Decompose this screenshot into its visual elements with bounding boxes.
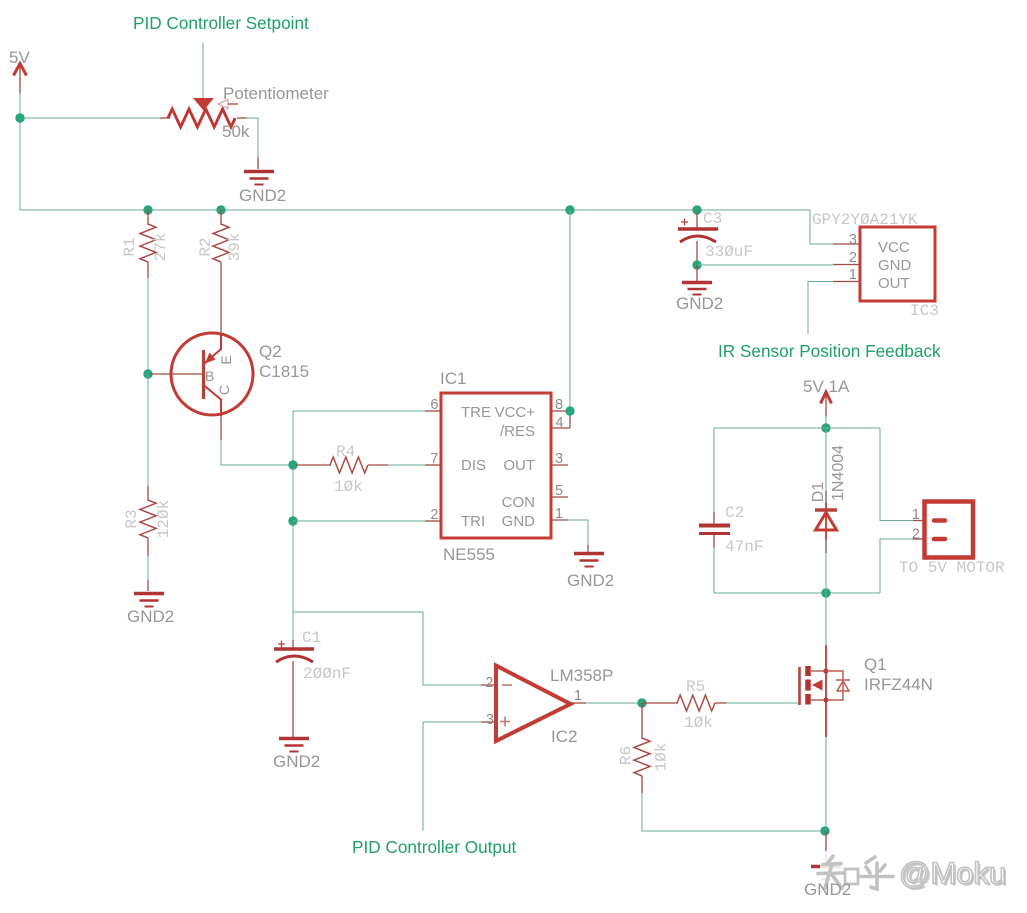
- ground GND2 (C3): [682, 283, 712, 295]
- capacitor C3: [678, 212, 718, 265]
- svg-text:GND: GND: [502, 513, 536, 530]
- wire setpoint to potentiometer wiper: [202, 43, 204, 100]
- svg-text:R6: R6: [618, 746, 636, 765]
- svg-text:3: 3: [849, 232, 857, 248]
- resistor R3: [140, 486, 156, 556]
- svg-text:2: 2: [849, 250, 857, 266]
- wire motor loop left: [713, 428, 715, 512]
- svg-text:CON: CON: [502, 494, 535, 511]
- wire motor loop top: [714, 427, 880, 429]
- ground GND2 (NE555): [574, 554, 604, 567]
- wire bus to pin8: [569, 210, 571, 411]
- svg-text:R2: R2: [197, 237, 215, 256]
- svg-text:12Øk: 12Øk: [155, 500, 173, 538]
- svg-text:GND2: GND2: [127, 607, 174, 626]
- op-amp U IC2 LM358P: [481, 666, 586, 742]
- wire NE555 GND pin to GND2: [568, 520, 588, 545]
- svg-text:OUT: OUT: [878, 275, 910, 292]
- svg-text:8: 8: [555, 397, 563, 413]
- wire 5V vertical: [19, 93, 21, 210]
- IC NE555 IC1: [425, 393, 570, 538]
- potentiometer 50k: [160, 98, 247, 127]
- diode D1 1N4004: [815, 428, 837, 593]
- svg-text:R1: R1: [121, 237, 139, 256]
- transistor Q2: [150, 333, 253, 440]
- svg-text:2: 2: [485, 675, 493, 691]
- svg-text:33ØuF: 33ØuF: [705, 243, 753, 261]
- wire source to gnd rail: [825, 737, 827, 831]
- wire sensor OUT down: [808, 282, 833, 335]
- svg-text:GPY2YØA21YK: GPY2YØA21YK: [812, 211, 918, 229]
- wire motor loop left lower: [713, 548, 715, 593]
- svg-text:IRFZ44N: IRFZ44N: [864, 675, 933, 694]
- pin stub R3 gnd: [147, 580, 149, 591]
- svg-text:GND2: GND2: [273, 752, 320, 771]
- svg-text:39k: 39k: [226, 233, 244, 262]
- wire R4 to DIS: [388, 464, 425, 466]
- svg-text:3: 3: [486, 712, 494, 728]
- svg-text:2: 2: [430, 507, 438, 523]
- ground GND2 (Q1): [811, 867, 841, 880]
- junction R4 node: [288, 460, 297, 469]
- svg-text:6: 6: [430, 397, 438, 413]
- wire Q2 collector to R4 node: [221, 440, 296, 465]
- wire R2 to Q2 emitter: [220, 278, 222, 334]
- svg-text:VCC: VCC: [878, 239, 910, 256]
- svg-text:Potentiometer: Potentiometer: [223, 84, 329, 103]
- svg-text:B: B: [205, 368, 214, 384]
- transistor Q1 MOSFET: [800, 645, 851, 737]
- wire drain from motor loop: [825, 593, 827, 646]
- svg-text:R4: R4: [336, 443, 355, 461]
- svg-text:GND2: GND2: [567, 571, 614, 590]
- capacitor C1: [274, 612, 314, 737]
- ground GND2 (potentiometer): [244, 172, 274, 185]
- svg-text:E: E: [218, 355, 234, 364]
- junction base node: [143, 369, 152, 378]
- svg-text:GND: GND: [878, 257, 912, 274]
- connector IC3 GP2Y0A21YK: [833, 227, 935, 301]
- svg-text:TRE: TRE: [461, 404, 491, 421]
- svg-text:1Øk: 1Øk: [684, 714, 713, 732]
- watermark: [818, 851, 1008, 893]
- junction pin8: [565, 406, 574, 415]
- wire R5 to gate: [726, 702, 798, 704]
- svg-text:GND2: GND2: [239, 186, 286, 205]
- wire motor loop bottom: [714, 592, 880, 594]
- wire 5V to potentiometer: [20, 117, 160, 119]
- svg-text:OUT: OUT: [503, 457, 535, 474]
- wire bus to sensor VCC: [810, 210, 833, 244]
- svg-text:IR Sensor Position Feedback: IR Sensor Position Feedback: [718, 341, 941, 361]
- resistor R6: [634, 703, 650, 793]
- svg-text:R3: R3: [123, 509, 141, 528]
- svg-text:R5: R5: [686, 678, 705, 696]
- svg-text:7: 7: [430, 451, 438, 467]
- svg-text:PID Controller Setpoint: PID Controller Setpoint: [133, 13, 309, 33]
- svg-text:Q1: Q1: [864, 655, 887, 674]
- junction motor loop top: [821, 423, 830, 432]
- svg-text:3: 3: [555, 451, 563, 467]
- wire motor loop right lower: [880, 539, 913, 593]
- wire R1 to base node: [147, 278, 149, 374]
- svg-text:DIS: DIS: [461, 457, 486, 474]
- wire C3 node to sensor GND: [697, 264, 833, 266]
- wire net to C1 and op-amp: [293, 612, 481, 685]
- wire potentiometer to GND2: [246, 118, 258, 157]
- wire op-amp out to R5 node: [586, 702, 642, 704]
- svg-text:D1: D1: [810, 482, 827, 503]
- svg-text:1Øk: 1Øk: [653, 743, 671, 772]
- svg-text:4: 4: [556, 415, 564, 431]
- junction R5/R6 node: [637, 698, 646, 707]
- capacitor C2: [699, 512, 730, 548]
- svg-text:IC2: IC2: [551, 727, 577, 746]
- pin stub pot gnd: [257, 157, 259, 169]
- junction bus R2: [216, 205, 225, 214]
- wire R3 to GND2: [147, 556, 149, 580]
- resistor R1: [140, 210, 156, 278]
- junction bus NE555 VCC: [565, 205, 574, 214]
- svg-text:LM358P: LM358P: [550, 666, 613, 685]
- svg-text:27k: 27k: [152, 233, 170, 262]
- svg-text:PID Controller Output: PID Controller Output: [352, 837, 517, 857]
- supply 5V arrow: [14, 64, 27, 95]
- resistor R5: [642, 695, 727, 711]
- junction C3 gnd node: [692, 260, 701, 269]
- resistor R2: [213, 210, 229, 278]
- junction bus C3: [692, 205, 701, 214]
- svg-text:2: 2: [912, 527, 920, 543]
- svg-text:IC1: IC1: [440, 369, 466, 388]
- svg-text:1: 1: [912, 507, 920, 523]
- supply 5V 1A arrow: [821, 392, 832, 418]
- wire main 5V bus: [20, 209, 810, 211]
- svg-text:1Øk: 1Øk: [334, 478, 363, 496]
- wire vertical net x293: [292, 411, 294, 612]
- svg-text:Q2: Q2: [259, 342, 282, 361]
- svg-text:47nF: 47nF: [725, 538, 763, 556]
- svg-text:C3: C3: [703, 210, 722, 228]
- svg-text:C1: C1: [302, 629, 321, 647]
- svg-text:1: 1: [555, 506, 563, 522]
- svg-text:TO 5V MOTOR: TO 5V MOTOR: [899, 559, 1005, 577]
- svg-text:C1815: C1815: [259, 362, 309, 381]
- svg-text:2ØØnF: 2ØØnF: [303, 665, 351, 683]
- svg-text:/RES: /RES: [500, 423, 535, 440]
- connector TO 5V MOTOR: [913, 502, 973, 558]
- pin stub Q1 gnd: [825, 831, 827, 864]
- svg-text:1: 1: [849, 267, 857, 283]
- ground GND2 (R3): [134, 594, 164, 607]
- wire 5V1A to motor loop: [825, 416, 827, 428]
- junction motor loop bottom: [821, 588, 830, 597]
- junction bus R1: [143, 205, 152, 214]
- wire TRI: [293, 520, 425, 522]
- svg-text:1N4004: 1N4004: [830, 445, 847, 501]
- junction gnd rail: [820, 826, 829, 835]
- svg-text:5: 5: [555, 483, 563, 499]
- wire op-amp pin3: [423, 721, 481, 723]
- resistor R4: [296, 457, 388, 473]
- junction TRI node: [288, 516, 297, 525]
- ground GND2 (C1): [279, 739, 309, 752]
- svg-text:1: 1: [574, 688, 582, 704]
- wire motor loop right upper: [880, 428, 913, 521]
- svg-text:C2: C2: [725, 504, 744, 522]
- junction at 5V branch: [15, 113, 24, 122]
- wire pin3 down to PID output: [422, 722, 424, 831]
- svg-text:@Moku: @Moku: [899, 856, 1006, 891]
- svg-text:NE555: NE555: [443, 545, 495, 564]
- svg-text:IC3: IC3: [910, 302, 939, 320]
- wire NE555 TRE: [293, 410, 425, 412]
- svg-text:GND2: GND2: [804, 880, 851, 899]
- pin stub C3 gnd: [696, 265, 698, 281]
- wire base node to R3: [147, 374, 149, 488]
- svg-text:50k: 50k: [222, 122, 250, 141]
- svg-text:VCC+: VCC+: [495, 404, 536, 421]
- wire R6 to gnd rail: [642, 793, 825, 831]
- svg-text:TRI: TRI: [461, 513, 485, 530]
- pin stub NE555 gnd: [587, 545, 589, 552]
- svg-text:C: C: [216, 385, 232, 395]
- svg-text:GND2: GND2: [676, 294, 723, 313]
